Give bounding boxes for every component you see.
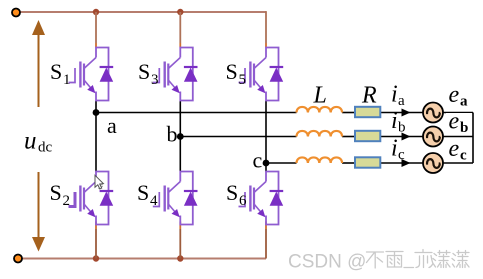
- label S6: [226, 180, 247, 209]
- u_dc down arrow: [32, 172, 45, 252]
- label i_b: [391, 108, 406, 136]
- DC+ terminal: [12, 9, 20, 17]
- wire phase a resistor-to-source: [380, 112, 423, 114]
- inductor L phase b: [297, 131, 343, 137]
- label e_b: [446, 109, 472, 137]
- DC- terminal: [14, 255, 22, 263]
- S2 gate lead highlight: [69, 192, 76, 207]
- wire phase b source-to-bus: [442, 136, 473, 138]
- wire phase b resistor-to-source: [380, 136, 423, 138]
- svg-text:6: 6: [239, 193, 247, 209]
- transistor S3: [153, 48, 198, 101]
- hanzi yi: [415, 250, 433, 268]
- AC source e_a: [423, 103, 443, 123]
- node c dot: [263, 160, 270, 167]
- label S1: [50, 59, 71, 88]
- label S5: [226, 59, 247, 88]
- current arrow i_c: [402, 159, 411, 167]
- svg-text:dc: dc: [38, 140, 53, 156]
- label S3: [138, 59, 159, 88]
- hanzi yu: [386, 252, 403, 268]
- svg-text:i: i: [391, 82, 398, 108]
- wire phase c source-to-bus: [442, 162, 473, 164]
- label i_a: [391, 82, 405, 110]
- label S2: [50, 180, 71, 209]
- label e_a: [446, 82, 472, 110]
- wire leg1 bottom stub: [95, 229, 97, 259]
- wire phase c: [266, 162, 297, 164]
- svg-text:1: 1: [63, 72, 71, 88]
- svg-text:i: i: [391, 108, 398, 134]
- svg-text:S: S: [226, 180, 238, 205]
- svg-text:b: b: [167, 122, 178, 147]
- label u_dc: [24, 128, 53, 156]
- AC source e_b: [423, 127, 443, 147]
- wire phase b: [180, 136, 296, 138]
- wire leg3 top stub: [265, 12, 266, 43]
- junction dot top leg1: [93, 9, 99, 15]
- resistor R phase c: [355, 157, 380, 167]
- wire leg2 top stub: [179, 12, 181, 43]
- wire phase b coil-to-resistor: [342, 136, 354, 138]
- wire leg2 bottom pin: [179, 222, 181, 230]
- svg-text:b: b: [460, 120, 468, 136]
- transistor S4: [153, 172, 198, 225]
- wire leg3 middle: [265, 101, 267, 172]
- wire leg3 bottom pin: [265, 222, 267, 230]
- label i_c: [391, 136, 405, 164]
- svg-text:u: u: [24, 128, 37, 155]
- junction dot top leg2: [177, 9, 183, 15]
- transistor S1: [69, 48, 114, 101]
- neutral bus wire: [472, 113, 474, 164]
- wire phase a: [96, 112, 297, 114]
- svg-text:S: S: [226, 59, 238, 84]
- svg-text:i: i: [391, 136, 398, 162]
- svg-text:c: c: [460, 148, 467, 164]
- svg-text:S: S: [50, 59, 62, 84]
- svg-text:CSDN @: CSDN @: [288, 252, 366, 273]
- svg-text:S: S: [50, 180, 62, 205]
- svg-text:S: S: [137, 180, 149, 205]
- inductor L phase c: [297, 157, 343, 163]
- underscore: [404, 267, 414, 269]
- AC source e_c: [423, 153, 443, 173]
- node a dot: [93, 109, 100, 116]
- wire leg2 top pin: [179, 43, 181, 48]
- hanzi xiao 1: [433, 251, 450, 268]
- svg-text:4: 4: [150, 193, 158, 209]
- wire phase c coil-to-resistor: [342, 162, 354, 164]
- current arrow i_a: [402, 109, 411, 117]
- svg-text:e: e: [449, 82, 460, 108]
- wire phase c resistor-to-source: [380, 162, 423, 164]
- svg-text:a: a: [398, 93, 405, 109]
- svg-text:L: L: [313, 83, 327, 109]
- label e_c: [446, 136, 472, 164]
- svg-text:c: c: [253, 148, 263, 173]
- label S4: [137, 180, 158, 209]
- svg-text:5: 5: [239, 72, 247, 88]
- u_dc up arrow: [32, 20, 45, 107]
- wire leg3 top pin: [265, 43, 267, 48]
- transistor S6: [239, 172, 284, 225]
- mouse cursor paste glyph: [98, 185, 103, 189]
- svg-text:c: c: [398, 147, 405, 163]
- wire leg3 bottom stub: [265, 229, 267, 259]
- transistor S5: [239, 48, 284, 101]
- wire leg2 bottom stub: [179, 229, 181, 259]
- wire leg1 top stub: [95, 12, 97, 43]
- svg-text:3: 3: [151, 72, 159, 88]
- svg-text:e: e: [449, 109, 460, 135]
- bottom DC rail: [21, 258, 266, 260]
- resistor R phase a: [355, 107, 380, 117]
- top DC rail: [20, 11, 266, 13]
- hanzi bu: [367, 252, 384, 268]
- wire phase a coil-to-resistor: [342, 112, 354, 114]
- svg-text:e: e: [449, 136, 460, 162]
- mouse cursor: [95, 175, 103, 189]
- wire leg2 middle: [179, 101, 181, 172]
- inductor L phase a: [297, 107, 343, 113]
- resistor R phase b: [355, 131, 380, 141]
- junction dot bottom leg1: [93, 255, 99, 261]
- svg-text:b: b: [398, 120, 406, 136]
- wire leg1 bottom pin: [95, 222, 97, 230]
- svg-text:R: R: [361, 83, 377, 109]
- hanzi xiao 2: [452, 251, 469, 268]
- watermark CSDN: [288, 250, 469, 273]
- transistor S2: [69, 172, 114, 225]
- current arrow i_b: [402, 133, 411, 141]
- wire leg1 top pin: [95, 43, 97, 48]
- svg-text:a: a: [107, 113, 117, 138]
- wire phase a source-to-bus: [442, 112, 473, 114]
- svg-text:S: S: [138, 59, 150, 84]
- junction dot bottom leg2: [177, 255, 183, 261]
- svg-text:a: a: [460, 94, 468, 110]
- node b dot: [177, 133, 184, 140]
- wire leg1 middle (S1 emitter to S2 collector): [95, 101, 97, 172]
